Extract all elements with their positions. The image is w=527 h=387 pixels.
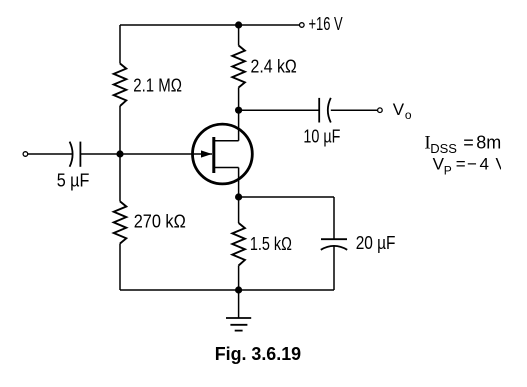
svg-text:270 kΩ: 270 kΩ	[134, 212, 186, 232]
svg-text:−: −	[467, 155, 477, 174]
svg-text:P: P	[444, 164, 452, 178]
svg-text:=: =	[463, 133, 474, 153]
svg-text:V: V	[393, 100, 405, 119]
svg-text:20 µF: 20 µF	[356, 233, 396, 253]
svg-text:2.4 kΩ: 2.4 kΩ	[251, 56, 297, 76]
svg-text:+16 V: +16 V	[309, 14, 343, 34]
svg-text:=: =	[456, 155, 466, 174]
svg-text:V: V	[496, 155, 508, 174]
svg-text:m: m	[486, 133, 501, 153]
svg-text:2.1 MΩ: 2.1 MΩ	[133, 76, 182, 96]
svg-text:1.5 kΩ: 1.5 kΩ	[250, 234, 292, 254]
svg-text:4: 4	[480, 155, 489, 174]
svg-text:o: o	[405, 108, 412, 122]
svg-text:10 µF: 10 µF	[303, 127, 340, 147]
svg-text:8: 8	[476, 133, 486, 153]
svg-text:5 µF: 5 µF	[57, 171, 90, 191]
svg-text:Fig. 3.6.19: Fig. 3.6.19	[215, 344, 301, 364]
svg-text:V: V	[433, 155, 445, 174]
